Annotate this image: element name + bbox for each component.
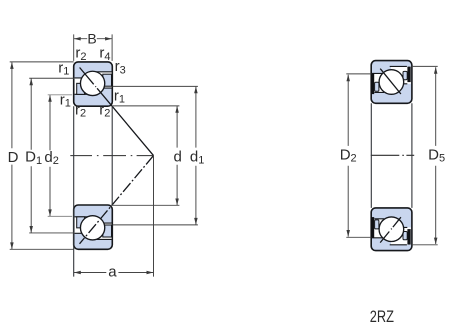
svg-text:D: D [8, 149, 19, 166]
svg-text:B: B [87, 31, 96, 47]
svg-text:d: d [174, 148, 182, 165]
svg-text:a: a [108, 263, 117, 280]
svg-text:2RZ: 2RZ [370, 308, 394, 326]
